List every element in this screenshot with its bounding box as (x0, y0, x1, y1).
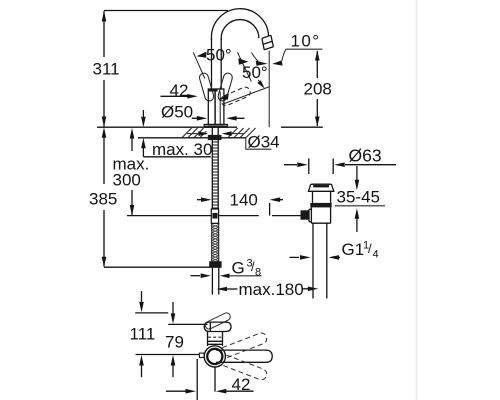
svg-text:385: 385 (89, 190, 117, 209)
svg-text:35-45: 35-45 (337, 188, 380, 207)
svg-text:4: 4 (373, 249, 379, 261)
svg-text:140: 140 (230, 191, 258, 210)
svg-text:8: 8 (255, 267, 261, 279)
svg-text:Ø50: Ø50 (161, 103, 193, 122)
svg-text:max.180: max.180 (239, 280, 304, 299)
svg-text:Ø34: Ø34 (248, 133, 280, 152)
svg-text:G1: G1 (342, 240, 365, 259)
svg-text:208: 208 (304, 80, 332, 99)
svg-text:Ø63: Ø63 (349, 146, 382, 166)
svg-text:G: G (232, 259, 245, 278)
svg-text:79: 79 (165, 333, 184, 352)
svg-text:10°: 10° (291, 32, 321, 51)
svg-text:300: 300 (113, 171, 141, 190)
svg-text:50°: 50° (242, 63, 268, 82)
svg-text:42: 42 (170, 81, 189, 100)
svg-text:/: / (368, 241, 372, 256)
svg-text:50°: 50° (206, 46, 232, 65)
svg-text:42: 42 (232, 375, 251, 394)
svg-text:111: 111 (130, 325, 156, 344)
svg-text:max. 30: max. 30 (152, 140, 212, 159)
svg-text:311: 311 (93, 60, 120, 79)
